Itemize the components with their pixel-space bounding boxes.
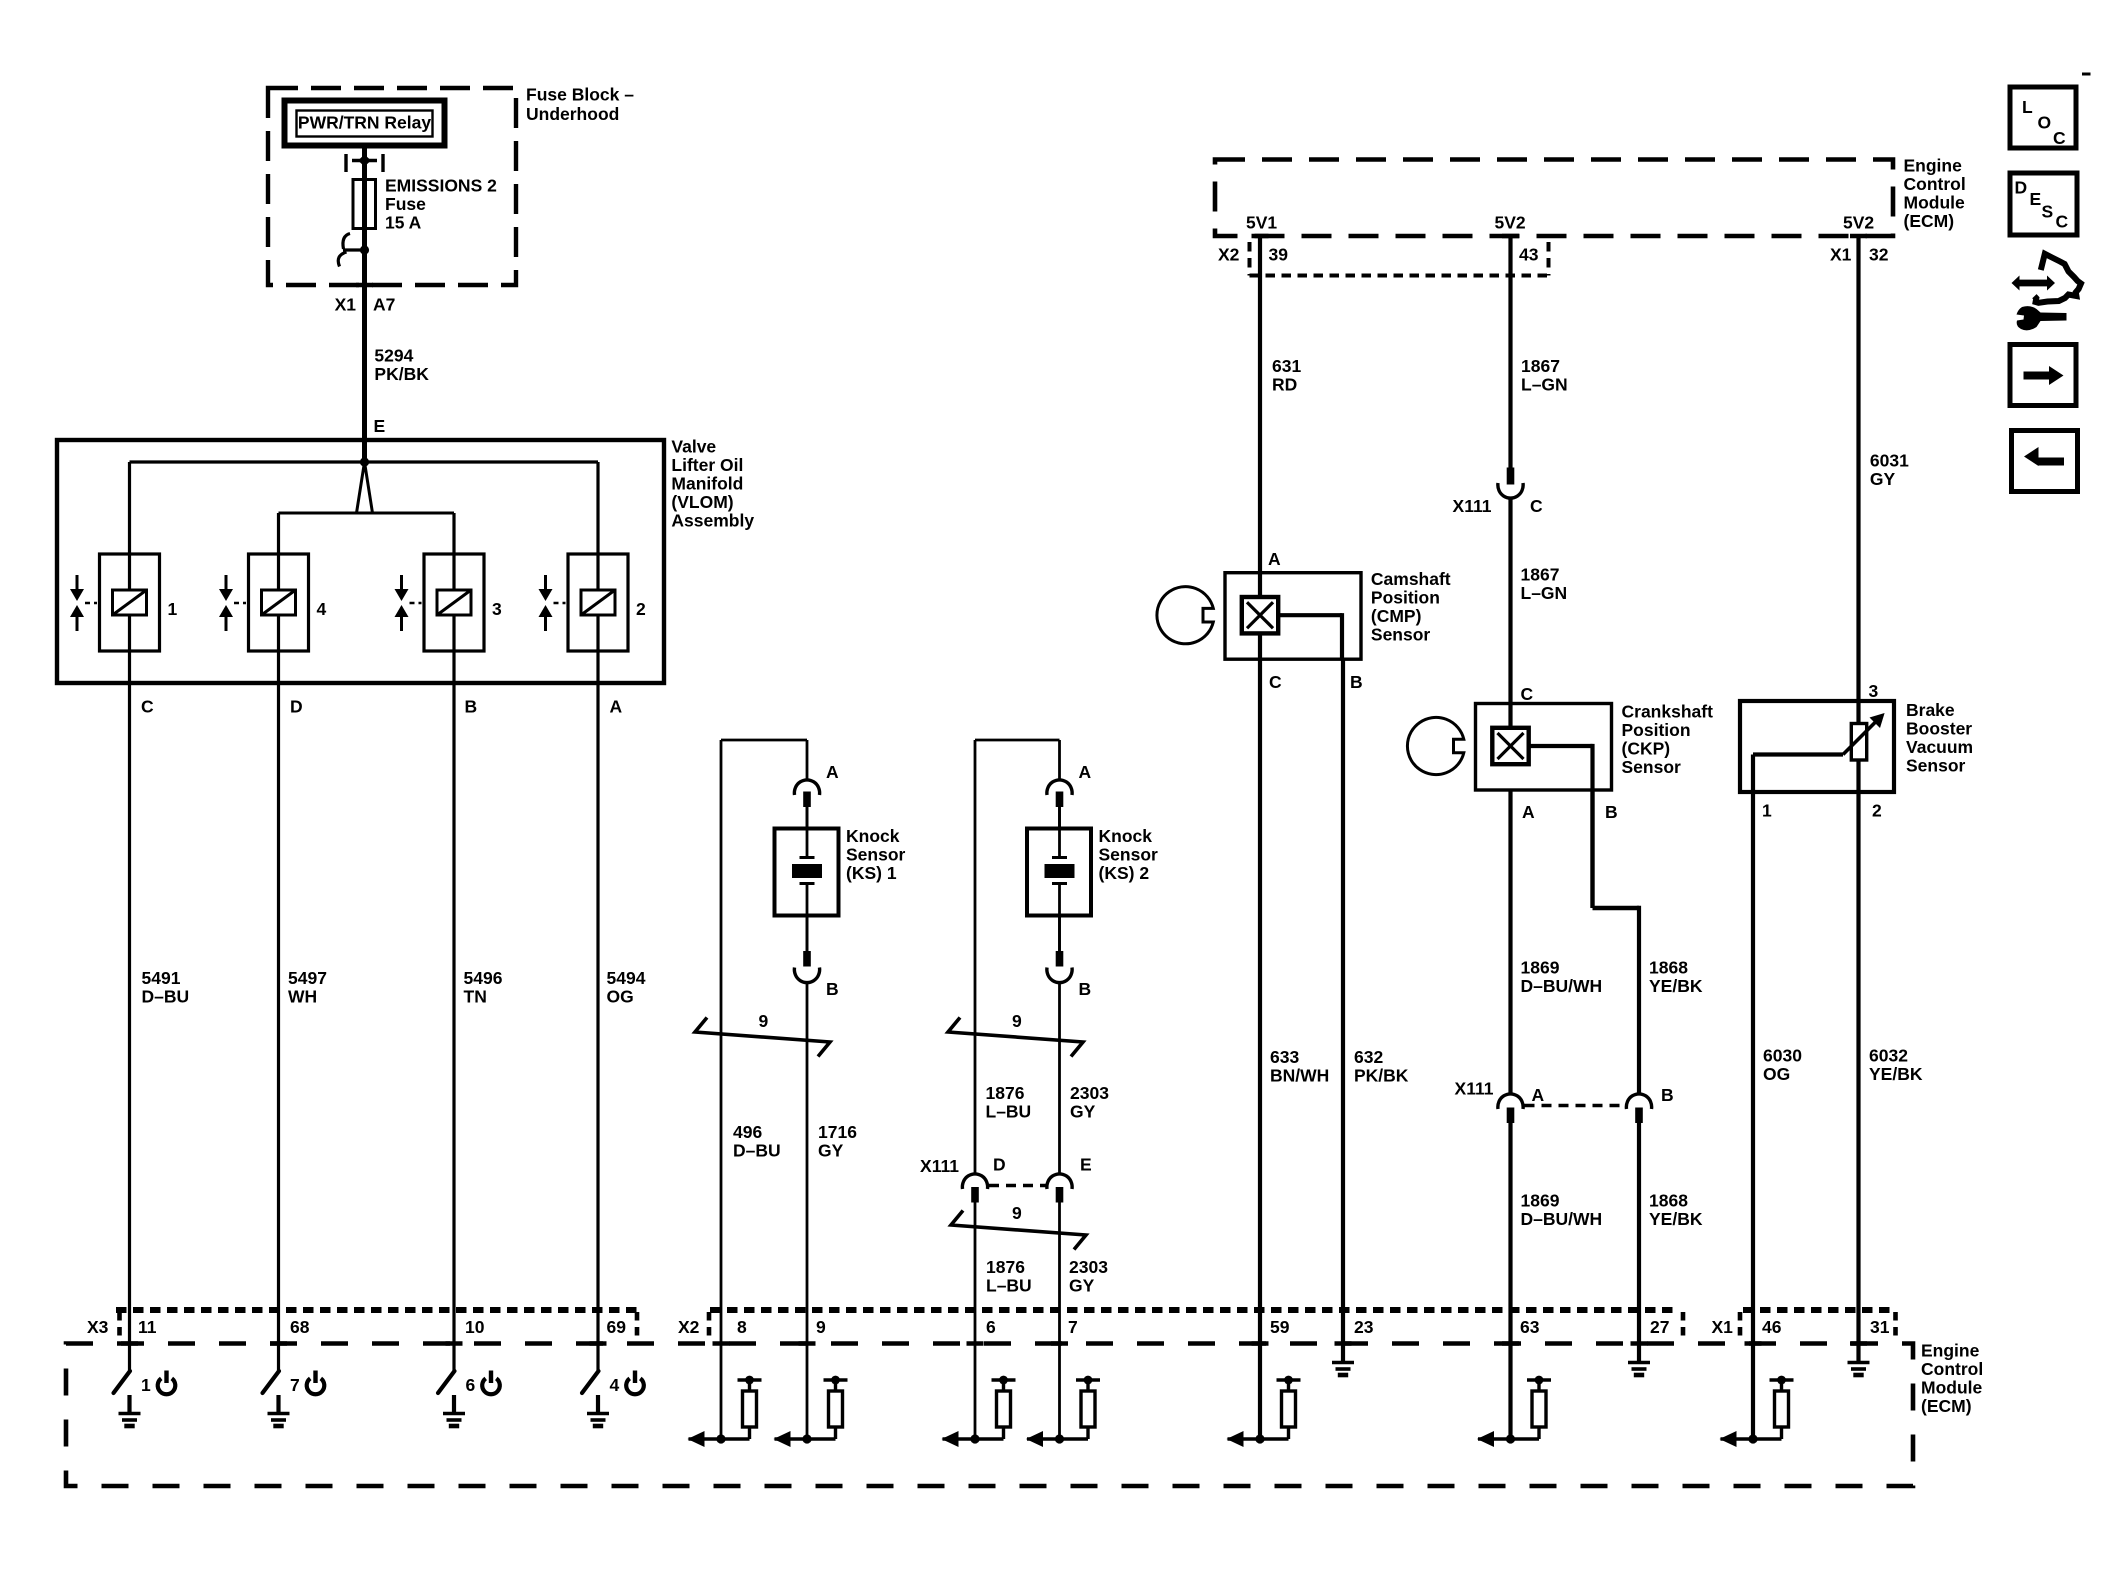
svg-text:Valve: Valve [671, 437, 716, 457]
svg-text:4: 4 [317, 599, 327, 619]
svg-text:9: 9 [759, 1011, 769, 1031]
svg-text:10: 10 [465, 1317, 485, 1337]
svg-text:43: 43 [1519, 245, 1539, 265]
svg-text:1867: 1867 [1521, 356, 1560, 376]
svg-text:L–GN: L–GN [1521, 583, 1568, 603]
svg-text:5496: 5496 [464, 968, 503, 988]
svg-text:B: B [826, 979, 839, 999]
svg-text:3: 3 [492, 599, 502, 619]
svg-text:GY: GY [1870, 469, 1896, 489]
svg-text:(ECM): (ECM) [1904, 211, 1955, 231]
svg-text:E: E [1080, 1155, 1092, 1175]
svg-text:C: C [2056, 212, 2069, 232]
svg-text:Sensor: Sensor [1371, 624, 1431, 644]
svg-text:YE/BK: YE/BK [1649, 976, 1703, 996]
svg-text:(CKP): (CKP) [1622, 739, 1671, 759]
svg-text:X2: X2 [678, 1317, 700, 1337]
svg-text:69: 69 [607, 1317, 627, 1337]
svg-text:Knock: Knock [1099, 826, 1153, 846]
svg-text:Sensor: Sensor [846, 844, 906, 864]
svg-text:1716: 1716 [818, 1122, 857, 1142]
svg-text:E: E [374, 416, 386, 436]
svg-text:YE/BK: YE/BK [1869, 1064, 1923, 1084]
svg-text:D: D [993, 1155, 1006, 1175]
svg-text:X1: X1 [1712, 1317, 1734, 1337]
svg-text:L–BU: L–BU [986, 1101, 1032, 1121]
svg-text:C: C [1269, 672, 1282, 692]
svg-text:7: 7 [290, 1375, 300, 1395]
svg-text:BN/WH: BN/WH [1270, 1065, 1329, 1085]
svg-text:632: 632 [1354, 1047, 1383, 1067]
svg-text:C: C [1521, 684, 1534, 704]
svg-text:9: 9 [816, 1317, 826, 1337]
svg-text:A: A [1522, 802, 1535, 822]
svg-text:GY: GY [1069, 1275, 1095, 1295]
svg-text:1869: 1869 [1521, 1190, 1560, 1210]
svg-text:(VLOM): (VLOM) [671, 492, 733, 512]
svg-text:OG: OG [607, 986, 634, 1006]
svg-text:Engine: Engine [1904, 156, 1963, 176]
svg-text:B: B [465, 697, 478, 717]
svg-text:Sensor: Sensor [1099, 844, 1159, 864]
svg-text:A: A [610, 697, 623, 717]
svg-text:68: 68 [290, 1317, 310, 1337]
svg-text:27: 27 [1650, 1317, 1669, 1337]
svg-text:Crankshaft: Crankshaft [1622, 702, 1714, 722]
svg-text:D: D [290, 697, 303, 717]
svg-text:15 A: 15 A [385, 212, 422, 232]
svg-text:L: L [2022, 97, 2033, 117]
svg-text:5494: 5494 [607, 968, 646, 988]
svg-text:63: 63 [1520, 1317, 1540, 1337]
svg-text:L–GN: L–GN [1521, 374, 1568, 394]
svg-text:1867: 1867 [1521, 564, 1560, 584]
svg-text:3: 3 [1869, 681, 1879, 701]
svg-text:B: B [1350, 672, 1363, 692]
svg-text:2303: 2303 [1070, 1083, 1109, 1103]
svg-text:5V2: 5V2 [1495, 213, 1526, 233]
svg-text:YE/BK: YE/BK [1649, 1209, 1703, 1229]
svg-text:D–BU: D–BU [733, 1140, 781, 1160]
svg-text:Engine: Engine [1921, 1340, 1980, 1360]
svg-text:6031: 6031 [1870, 451, 1909, 471]
svg-text:32: 32 [1869, 245, 1889, 265]
svg-text:PK/BK: PK/BK [374, 364, 429, 384]
svg-text:6: 6 [466, 1375, 476, 1395]
svg-text:C: C [1530, 496, 1543, 516]
svg-text:Sensor: Sensor [1906, 755, 1966, 775]
svg-text:Sensor: Sensor [1622, 757, 1682, 777]
svg-text:L–BU: L–BU [986, 1275, 1032, 1295]
svg-text:Vacuum: Vacuum [1906, 737, 1973, 757]
svg-text:PWR/TRN Relay: PWR/TRN Relay [298, 113, 431, 133]
svg-text:5497: 5497 [288, 968, 327, 988]
svg-text:GY: GY [1070, 1101, 1096, 1121]
svg-text:D–BU: D–BU [142, 986, 190, 1006]
svg-text:8: 8 [737, 1317, 747, 1337]
svg-text:Booster: Booster [1906, 718, 1972, 738]
svg-text:Control: Control [1904, 174, 1966, 194]
svg-text:O: O [2038, 113, 2052, 133]
svg-text:1868: 1868 [1649, 957, 1688, 977]
svg-text:Position: Position [1622, 720, 1691, 740]
svg-text:X1: X1 [1830, 245, 1852, 265]
svg-text:EMISSIONS 2: EMISSIONS 2 [385, 175, 497, 195]
svg-text:9: 9 [1012, 1011, 1022, 1031]
svg-text:1868: 1868 [1649, 1190, 1688, 1210]
svg-text:(KS) 2: (KS) 2 [1099, 863, 1150, 883]
svg-text:Fuse Block –: Fuse Block – [526, 84, 634, 104]
svg-text:A: A [1268, 549, 1281, 569]
svg-text:Assembly: Assembly [671, 511, 754, 531]
svg-text:6: 6 [986, 1317, 996, 1337]
svg-text:1: 1 [1762, 801, 1772, 821]
svg-text:X111: X111 [920, 1156, 959, 1176]
svg-text:496: 496 [733, 1122, 762, 1142]
svg-text:31: 31 [1870, 1317, 1890, 1337]
svg-text:C: C [2053, 128, 2066, 148]
svg-text:A7: A7 [373, 295, 395, 315]
svg-text:23: 23 [1354, 1317, 1374, 1337]
svg-text:(CMP): (CMP) [1371, 606, 1422, 626]
svg-text:B: B [1661, 1085, 1674, 1105]
svg-text:6032: 6032 [1869, 1045, 1908, 1065]
svg-text:A: A [1532, 1085, 1545, 1105]
svg-text:S: S [2042, 202, 2054, 222]
svg-text:Position: Position [1371, 587, 1440, 607]
svg-text:(ECM): (ECM) [1921, 1396, 1972, 1416]
svg-text:X3: X3 [87, 1317, 109, 1337]
svg-text:RD: RD [1272, 374, 1297, 394]
svg-text:X2: X2 [1218, 245, 1240, 265]
svg-text:Module: Module [1904, 193, 1966, 213]
svg-text:39: 39 [1269, 245, 1289, 265]
svg-text:1: 1 [168, 599, 178, 619]
svg-text:D–BU/WH: D–BU/WH [1521, 1209, 1603, 1229]
svg-text:Control: Control [1921, 1359, 1983, 1379]
svg-text:C: C [141, 697, 154, 717]
svg-text:2303: 2303 [1069, 1257, 1108, 1277]
svg-text:1: 1 [141, 1375, 151, 1395]
svg-text:11: 11 [138, 1317, 157, 1337]
svg-text:9: 9 [1012, 1203, 1022, 1223]
svg-text:46: 46 [1762, 1317, 1782, 1337]
svg-text:Fuse: Fuse [385, 194, 426, 214]
svg-text:GY: GY [818, 1140, 844, 1160]
svg-text:X111: X111 [1455, 1079, 1494, 1099]
svg-text:5V2: 5V2 [1843, 213, 1874, 233]
svg-text:7: 7 [1068, 1317, 1078, 1337]
svg-text:5491: 5491 [142, 968, 181, 988]
svg-text:OG: OG [1763, 1064, 1790, 1084]
svg-text:2: 2 [636, 599, 646, 619]
svg-text:D: D [2015, 178, 2028, 198]
svg-text:Underhood: Underhood [526, 104, 619, 124]
svg-text:Manifold: Manifold [671, 474, 743, 494]
svg-text:PK/BK: PK/BK [1354, 1065, 1409, 1085]
svg-text:D–BU/WH: D–BU/WH [1521, 976, 1603, 996]
svg-text:A: A [1079, 762, 1092, 782]
svg-text:5V1: 5V1 [1246, 213, 1277, 233]
svg-text:WH: WH [288, 986, 317, 1006]
svg-text:Lifter Oil: Lifter Oil [671, 455, 743, 475]
svg-text:X1: X1 [335, 295, 357, 315]
svg-text:4: 4 [610, 1375, 620, 1395]
svg-text:Brake: Brake [1906, 700, 1955, 720]
svg-text:Knock: Knock [846, 826, 900, 846]
svg-text:1876: 1876 [986, 1083, 1025, 1103]
svg-text:Module: Module [1921, 1377, 1983, 1397]
svg-text:X111: X111 [1453, 496, 1492, 516]
svg-text:1876: 1876 [986, 1257, 1025, 1277]
svg-text:(KS) 1: (KS) 1 [846, 863, 897, 883]
svg-text:B: B [1079, 979, 1092, 999]
svg-text:631: 631 [1272, 356, 1301, 376]
svg-text:2: 2 [1872, 801, 1882, 821]
svg-text:633: 633 [1270, 1047, 1299, 1067]
svg-text:59: 59 [1270, 1317, 1290, 1337]
svg-text:B: B [1605, 802, 1618, 822]
svg-text:1869: 1869 [1521, 957, 1560, 977]
svg-text:Camshaft: Camshaft [1371, 569, 1451, 589]
svg-text:E: E [2030, 189, 2042, 209]
svg-text:6030: 6030 [1763, 1045, 1802, 1065]
svg-text:5294: 5294 [374, 345, 413, 365]
svg-text:A: A [826, 762, 839, 782]
svg-text:TN: TN [464, 986, 487, 1006]
